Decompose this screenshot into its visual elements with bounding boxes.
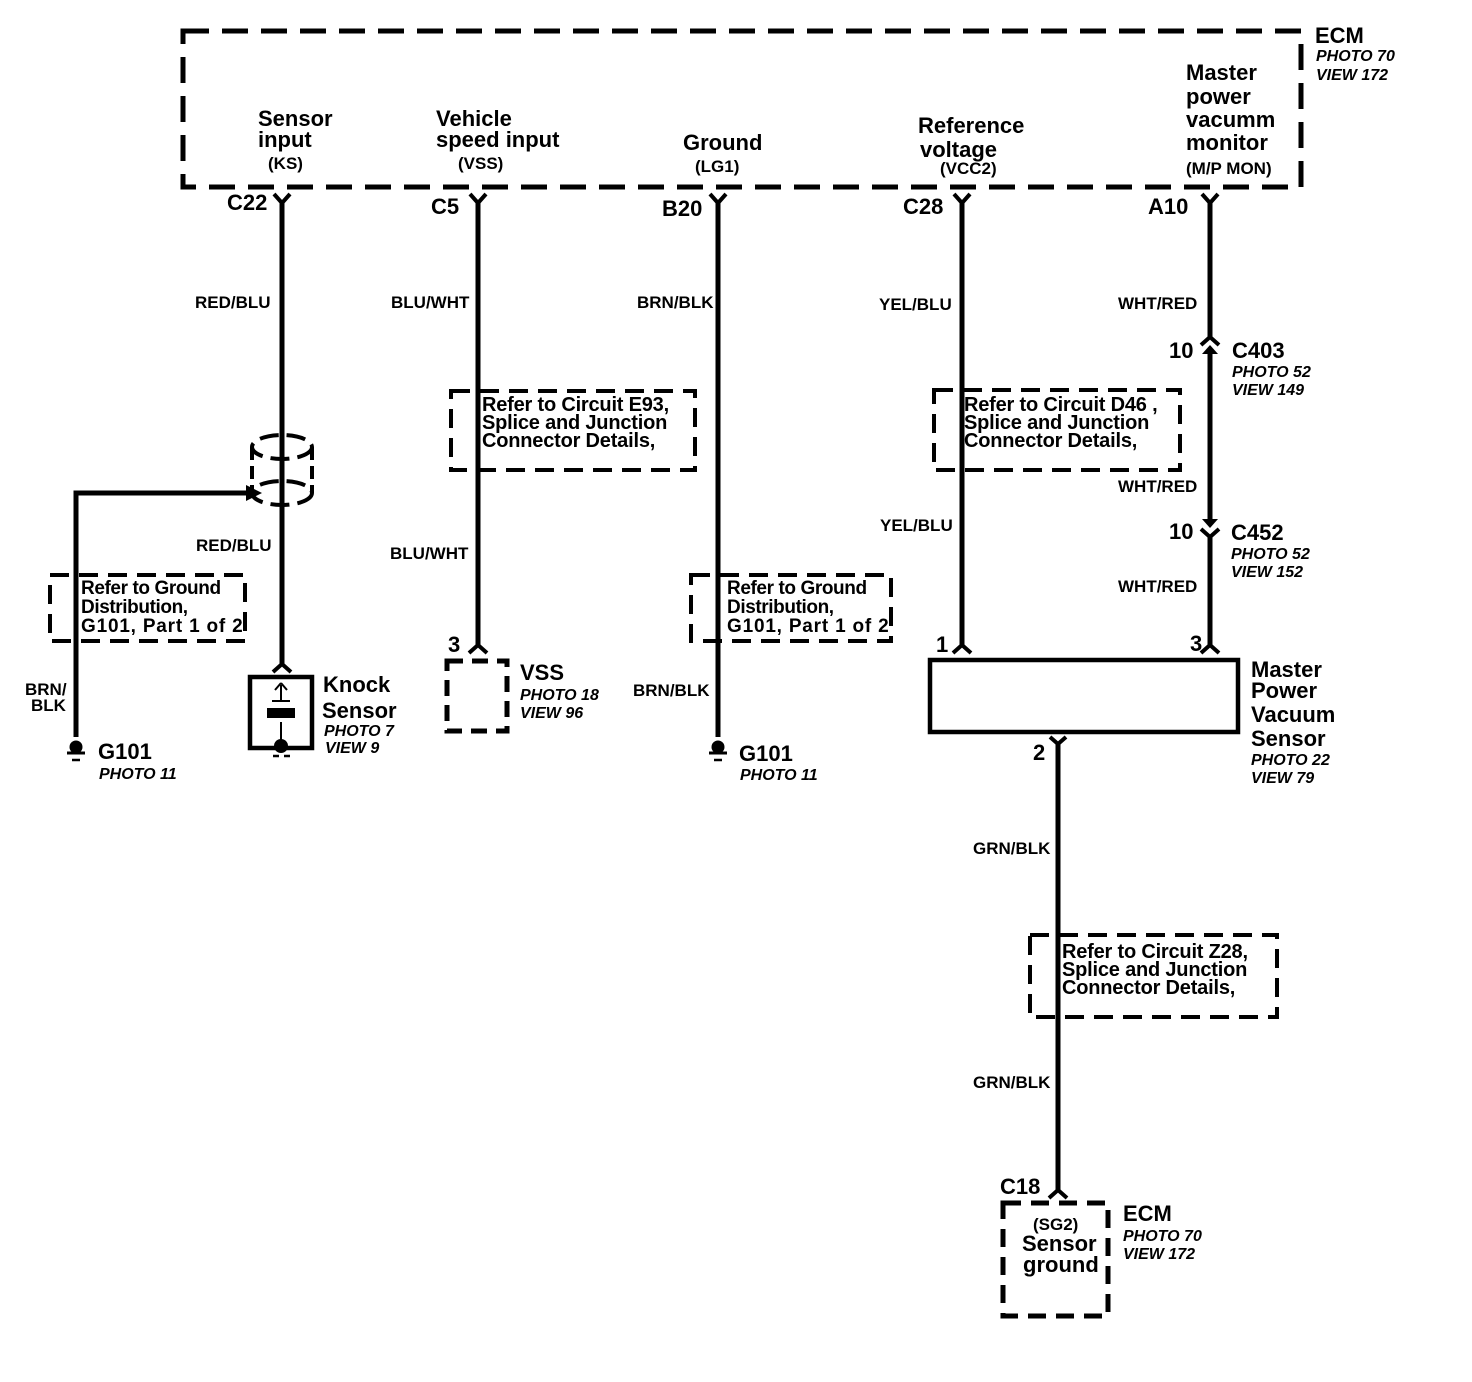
svg-text:ECM: ECM xyxy=(1123,1201,1172,1226)
node Vehicle speed input (VSS) xyxy=(436,106,560,173)
svg-text:C18: C18 xyxy=(1000,1174,1040,1199)
svg-text:PHOTO 52: PHOTO 52 xyxy=(1232,364,1311,381)
svg-text:A10: A10 xyxy=(1148,194,1188,219)
svg-text:Refer to Ground: Refer to Ground xyxy=(81,578,221,599)
node Sensor input (KS) xyxy=(258,106,333,173)
svg-text:C22: C22 xyxy=(227,190,267,215)
svg-text:10: 10 xyxy=(1169,519,1193,544)
svg-text:C5: C5 xyxy=(431,194,459,219)
svg-text:YEL/BLU: YEL/BLU xyxy=(879,295,952,314)
svg-text:G101: G101 xyxy=(98,739,152,764)
svg-text:(KS): (KS) xyxy=(268,154,303,173)
wire C452 to MPV sensor pin 3 xyxy=(1208,536,1213,645)
svg-text:(LG1): (LG1) xyxy=(695,157,739,176)
svg-text:BLU/WHT: BLU/WHT xyxy=(390,544,469,563)
ground G101 (middle) xyxy=(709,741,818,785)
refer box Ground Distribution (left) xyxy=(50,575,245,641)
pin A10 xyxy=(1148,194,1218,219)
connector C452 pin 10 xyxy=(1169,519,1310,581)
svg-text:WHT/RED: WHT/RED xyxy=(1118,294,1197,313)
svg-text:Power: Power xyxy=(1251,678,1317,703)
wire B20 to G101 xyxy=(716,201,721,737)
svg-text:RED/BLU: RED/BLU xyxy=(195,293,271,312)
svg-text:(M/P MON): (M/P MON) xyxy=(1186,159,1272,178)
svg-text:WHT/RED: WHT/RED xyxy=(1118,577,1197,596)
svg-text:Refer to Ground: Refer to Ground xyxy=(727,578,867,599)
pin C18 xyxy=(1000,1174,1067,1199)
wire label BRN/BLK (left) xyxy=(25,680,67,715)
svg-text:PHOTO 70: PHOTO 70 xyxy=(1123,1228,1202,1245)
svg-text:1: 1 xyxy=(936,632,948,657)
svg-text:(VCC2): (VCC2) xyxy=(940,159,997,178)
svg-text:Connector Details,: Connector Details, xyxy=(964,430,1137,452)
pin C22 xyxy=(227,190,290,215)
svg-text:PHOTO 52: PHOTO 52 xyxy=(1231,546,1310,563)
refer box Circuit E93 xyxy=(451,391,695,470)
svg-text:3: 3 xyxy=(448,632,460,657)
pin 2 MPV sensor xyxy=(1033,737,1066,765)
svg-text:PHOTO 70: PHOTO 70 xyxy=(1316,48,1395,65)
svg-text:Knock: Knock xyxy=(323,672,391,697)
svg-text:Connector Details,: Connector Details, xyxy=(1062,977,1235,999)
svg-text:VIEW 149: VIEW 149 xyxy=(1232,382,1304,399)
svg-text:PHOTO 11: PHOTO 11 xyxy=(99,766,177,783)
svg-text:monitor: monitor xyxy=(1186,130,1268,155)
svg-text:Master: Master xyxy=(1186,60,1257,85)
ECM sensor ground box (SG2) xyxy=(1003,1203,1108,1316)
svg-text:Connector Details,: Connector Details, xyxy=(482,430,655,452)
node Ground (LG1) xyxy=(683,130,762,176)
svg-text:Distribution,: Distribution, xyxy=(81,597,188,618)
svg-text:GRN/BLK: GRN/BLK xyxy=(973,839,1051,858)
svg-text:C28: C28 xyxy=(903,194,943,219)
pin 3 VSS xyxy=(448,632,487,657)
svg-text:Reference: Reference xyxy=(918,113,1024,138)
svg-text:ground: ground xyxy=(1023,1252,1099,1277)
wire splice branch to G101 (left) xyxy=(76,493,256,737)
pin 3 MPV sensor xyxy=(1190,631,1219,656)
svg-text:Distribution,: Distribution, xyxy=(727,597,834,618)
svg-text:power: power xyxy=(1186,84,1251,109)
svg-text:PHOTO 22: PHOTO 22 xyxy=(1251,752,1330,769)
wire A10 to C403 xyxy=(1208,201,1213,337)
svg-text:G101, Part 1 of 2: G101, Part 1 of 2 xyxy=(727,616,890,637)
svg-text:Sensor: Sensor xyxy=(1251,726,1326,751)
svg-text:RED/BLU: RED/BLU xyxy=(196,536,272,555)
knock sensor KS xyxy=(250,672,397,757)
svg-text:ECM: ECM xyxy=(1315,23,1364,48)
pin C5 xyxy=(431,194,486,219)
svg-text:YEL/BLU: YEL/BLU xyxy=(880,516,953,535)
svg-text:PHOTO 11: PHOTO 11 xyxy=(740,767,818,784)
wire C403 to C452 xyxy=(1208,352,1213,520)
svg-text:Ground: Ground xyxy=(683,130,762,155)
svg-text:10: 10 xyxy=(1169,338,1193,363)
ECM label (bottom) xyxy=(1123,1201,1202,1263)
svg-text:Sensor: Sensor xyxy=(322,698,397,723)
ECM dashed box U1 xyxy=(183,31,1301,187)
knock sensor arrow flare xyxy=(273,664,291,672)
svg-text:G101, Part 1 of 2: G101, Part 1 of 2 xyxy=(81,616,244,637)
svg-text:C452: C452 xyxy=(1231,520,1284,545)
svg-text:GRN/BLK: GRN/BLK xyxy=(973,1073,1051,1092)
pin 1 MPV sensor xyxy=(936,632,971,657)
svg-text:VIEW 172: VIEW 172 xyxy=(1316,67,1388,84)
ECM label xyxy=(1315,23,1395,84)
node Reference voltage (VCC2) xyxy=(918,113,1024,178)
svg-text:PHOTO 18: PHOTO 18 xyxy=(520,687,599,704)
wire MPV sensor pin 2 to C18 xyxy=(1056,743,1061,1190)
refer box Ground Distribution (middle) xyxy=(691,575,891,641)
svg-text:(VSS): (VSS) xyxy=(458,154,503,173)
svg-text:B20: B20 xyxy=(662,196,702,221)
wire C22 to knock sensor xyxy=(280,201,285,664)
svg-text:BLK: BLK xyxy=(31,696,67,715)
svg-text:Vacuum: Vacuum xyxy=(1251,702,1335,727)
svg-text:VIEW 79: VIEW 79 xyxy=(1251,770,1314,787)
wire C28 to MPV sensor pin 1 xyxy=(960,201,965,645)
splice S1 xyxy=(252,435,312,505)
ground G101 (left) xyxy=(67,739,177,783)
svg-text:BRN/BLK: BRN/BLK xyxy=(637,293,714,312)
svg-text:VIEW 9: VIEW 9 xyxy=(325,740,379,757)
svg-text:VIEW 172: VIEW 172 xyxy=(1123,1246,1195,1263)
svg-text:speed input: speed input xyxy=(436,127,560,152)
refer box Circuit D46 xyxy=(934,390,1180,470)
node Master power vacumm monitor (M/P MON) xyxy=(1186,60,1275,178)
svg-text:vacumm: vacumm xyxy=(1186,107,1275,132)
pin B20 xyxy=(662,194,726,221)
svg-text:C403: C403 xyxy=(1232,338,1285,363)
master power vacuum sensor box xyxy=(930,657,1335,787)
svg-text:BRN/BLK: BRN/BLK xyxy=(633,681,710,700)
svg-text:2: 2 xyxy=(1033,740,1045,765)
svg-text:WHT/RED: WHT/RED xyxy=(1118,477,1197,496)
VSS dashed box xyxy=(447,660,599,731)
svg-text:VIEW 152: VIEW 152 xyxy=(1231,564,1303,581)
refer box Circuit Z28 xyxy=(1030,935,1277,1017)
svg-text:VIEW 96: VIEW 96 xyxy=(520,705,583,722)
connector C403 pin 10 xyxy=(1169,337,1311,399)
svg-text:VSS: VSS xyxy=(520,660,564,685)
arrowhead into splice xyxy=(246,485,262,501)
svg-text:PHOTO 7: PHOTO 7 xyxy=(324,723,395,740)
svg-text:G101: G101 xyxy=(739,741,793,766)
pin C28 xyxy=(903,194,970,219)
svg-text:input: input xyxy=(258,127,312,152)
wire C5 to VSS xyxy=(476,201,481,645)
svg-text:BLU/WHT: BLU/WHT xyxy=(391,293,470,312)
